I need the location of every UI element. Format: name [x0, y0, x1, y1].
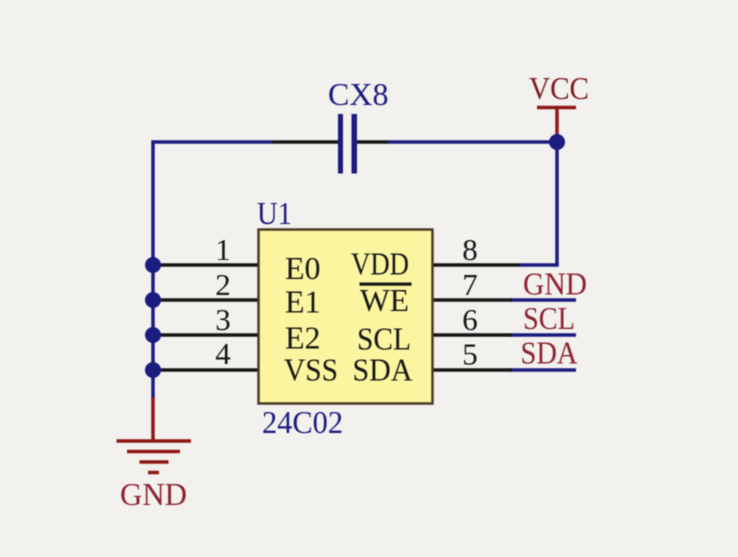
junction dot pin2: [145, 292, 161, 308]
svg-text:7: 7: [462, 267, 478, 302]
net label VCC: [529, 70, 589, 106]
pin number 4: [215, 336, 231, 371]
svg-text:4: 4: [215, 336, 231, 371]
svg-text:5: 5: [462, 337, 478, 372]
svg-text:WE: WE: [360, 282, 409, 318]
wire: pin 7 black stub: [432, 298, 512, 302]
part number 24C02: [262, 404, 343, 440]
svg-text:6: 6: [462, 302, 478, 337]
svg-text:8: 8: [462, 232, 478, 267]
junction dot pin4: [145, 362, 161, 378]
wire: pin 8 horizontal segment: [520, 263, 559, 267]
IC U1 24C02 body: [259, 230, 433, 404]
pin number 5: [462, 337, 478, 372]
pin number 6: [462, 302, 478, 337]
svg-text:VDD: VDD: [351, 246, 409, 282]
reference designator U1: [257, 195, 292, 231]
pin name SDA: [353, 352, 413, 388]
overline for WE (active low): [360, 283, 412, 286]
net label GND (pin 7): [523, 266, 587, 302]
wire: red segment to ground: [151, 397, 155, 441]
svg-text:GND: GND: [523, 266, 587, 302]
net label SDA (pin 5): [521, 335, 578, 371]
svg-text:U1: U1: [257, 195, 292, 231]
wire: pin 6 black stub: [432, 333, 512, 337]
wire net VCC: horizontal top-right segment: [388, 140, 557, 144]
svg-text:24C02: 24C02: [262, 404, 343, 440]
junction dot pin1: [145, 257, 161, 273]
svg-text:E0: E0: [285, 250, 321, 286]
svg-text:E1: E1: [285, 284, 321, 320]
svg-text:E2: E2: [285, 320, 321, 356]
wire: pin 4 connection: [153, 368, 259, 372]
net label SCL (pin 6): [523, 300, 575, 336]
pin name E0: [285, 250, 321, 286]
pin name VSS: [284, 352, 338, 388]
ground symbol: [117, 441, 192, 473]
svg-text:2: 2: [215, 267, 231, 302]
junction dot pin3: [145, 327, 161, 343]
value label CX8: [328, 76, 388, 112]
wire: right vertical from VCC node down to pin 8: [555, 142, 559, 265]
pin name VDD: [351, 246, 409, 282]
wire: pin 5 black stub: [432, 368, 512, 372]
pin number 2: [215, 267, 231, 302]
svg-text:1: 1: [215, 232, 231, 267]
svg-text:VSS: VSS: [284, 352, 338, 388]
wire: pin 8 black stub: [432, 263, 520, 267]
svg-text:SCL: SCL: [523, 300, 575, 336]
svg-text:CX8: CX8: [328, 76, 388, 112]
power symbol VCC: [537, 108, 576, 138]
wire net VCC: horizontal top-left segment: [153, 140, 272, 144]
wire: pin 2 connection: [153, 298, 259, 302]
pin name E2: [285, 320, 321, 356]
junction dot VCC node: [549, 134, 565, 150]
svg-text:VCC: VCC: [529, 70, 589, 106]
svg-text:SDA: SDA: [353, 352, 413, 388]
wire: pin 5 stub extension: [510, 368, 576, 372]
capacitor CX8: [272, 114, 388, 174]
pin name SCL: [357, 321, 411, 357]
wire: pin 6 stub extension: [510, 333, 576, 337]
svg-text:GND: GND: [120, 476, 187, 512]
pin name WE: [360, 282, 409, 318]
pin number 1: [215, 232, 231, 267]
wire: left vertical bus: [151, 140, 155, 399]
pin number 7: [462, 267, 478, 302]
pin number 8: [462, 232, 478, 267]
svg-text:SDA: SDA: [521, 335, 578, 371]
wire: pin 1 connection: [153, 263, 259, 267]
pin name E1: [285, 284, 321, 320]
wire: pin 7 stub extension: [510, 298, 576, 302]
net label GND (ground): [120, 476, 187, 512]
pin number 3: [215, 302, 231, 337]
wire: pin 3 connection: [153, 333, 259, 337]
svg-text:3: 3: [215, 302, 231, 337]
